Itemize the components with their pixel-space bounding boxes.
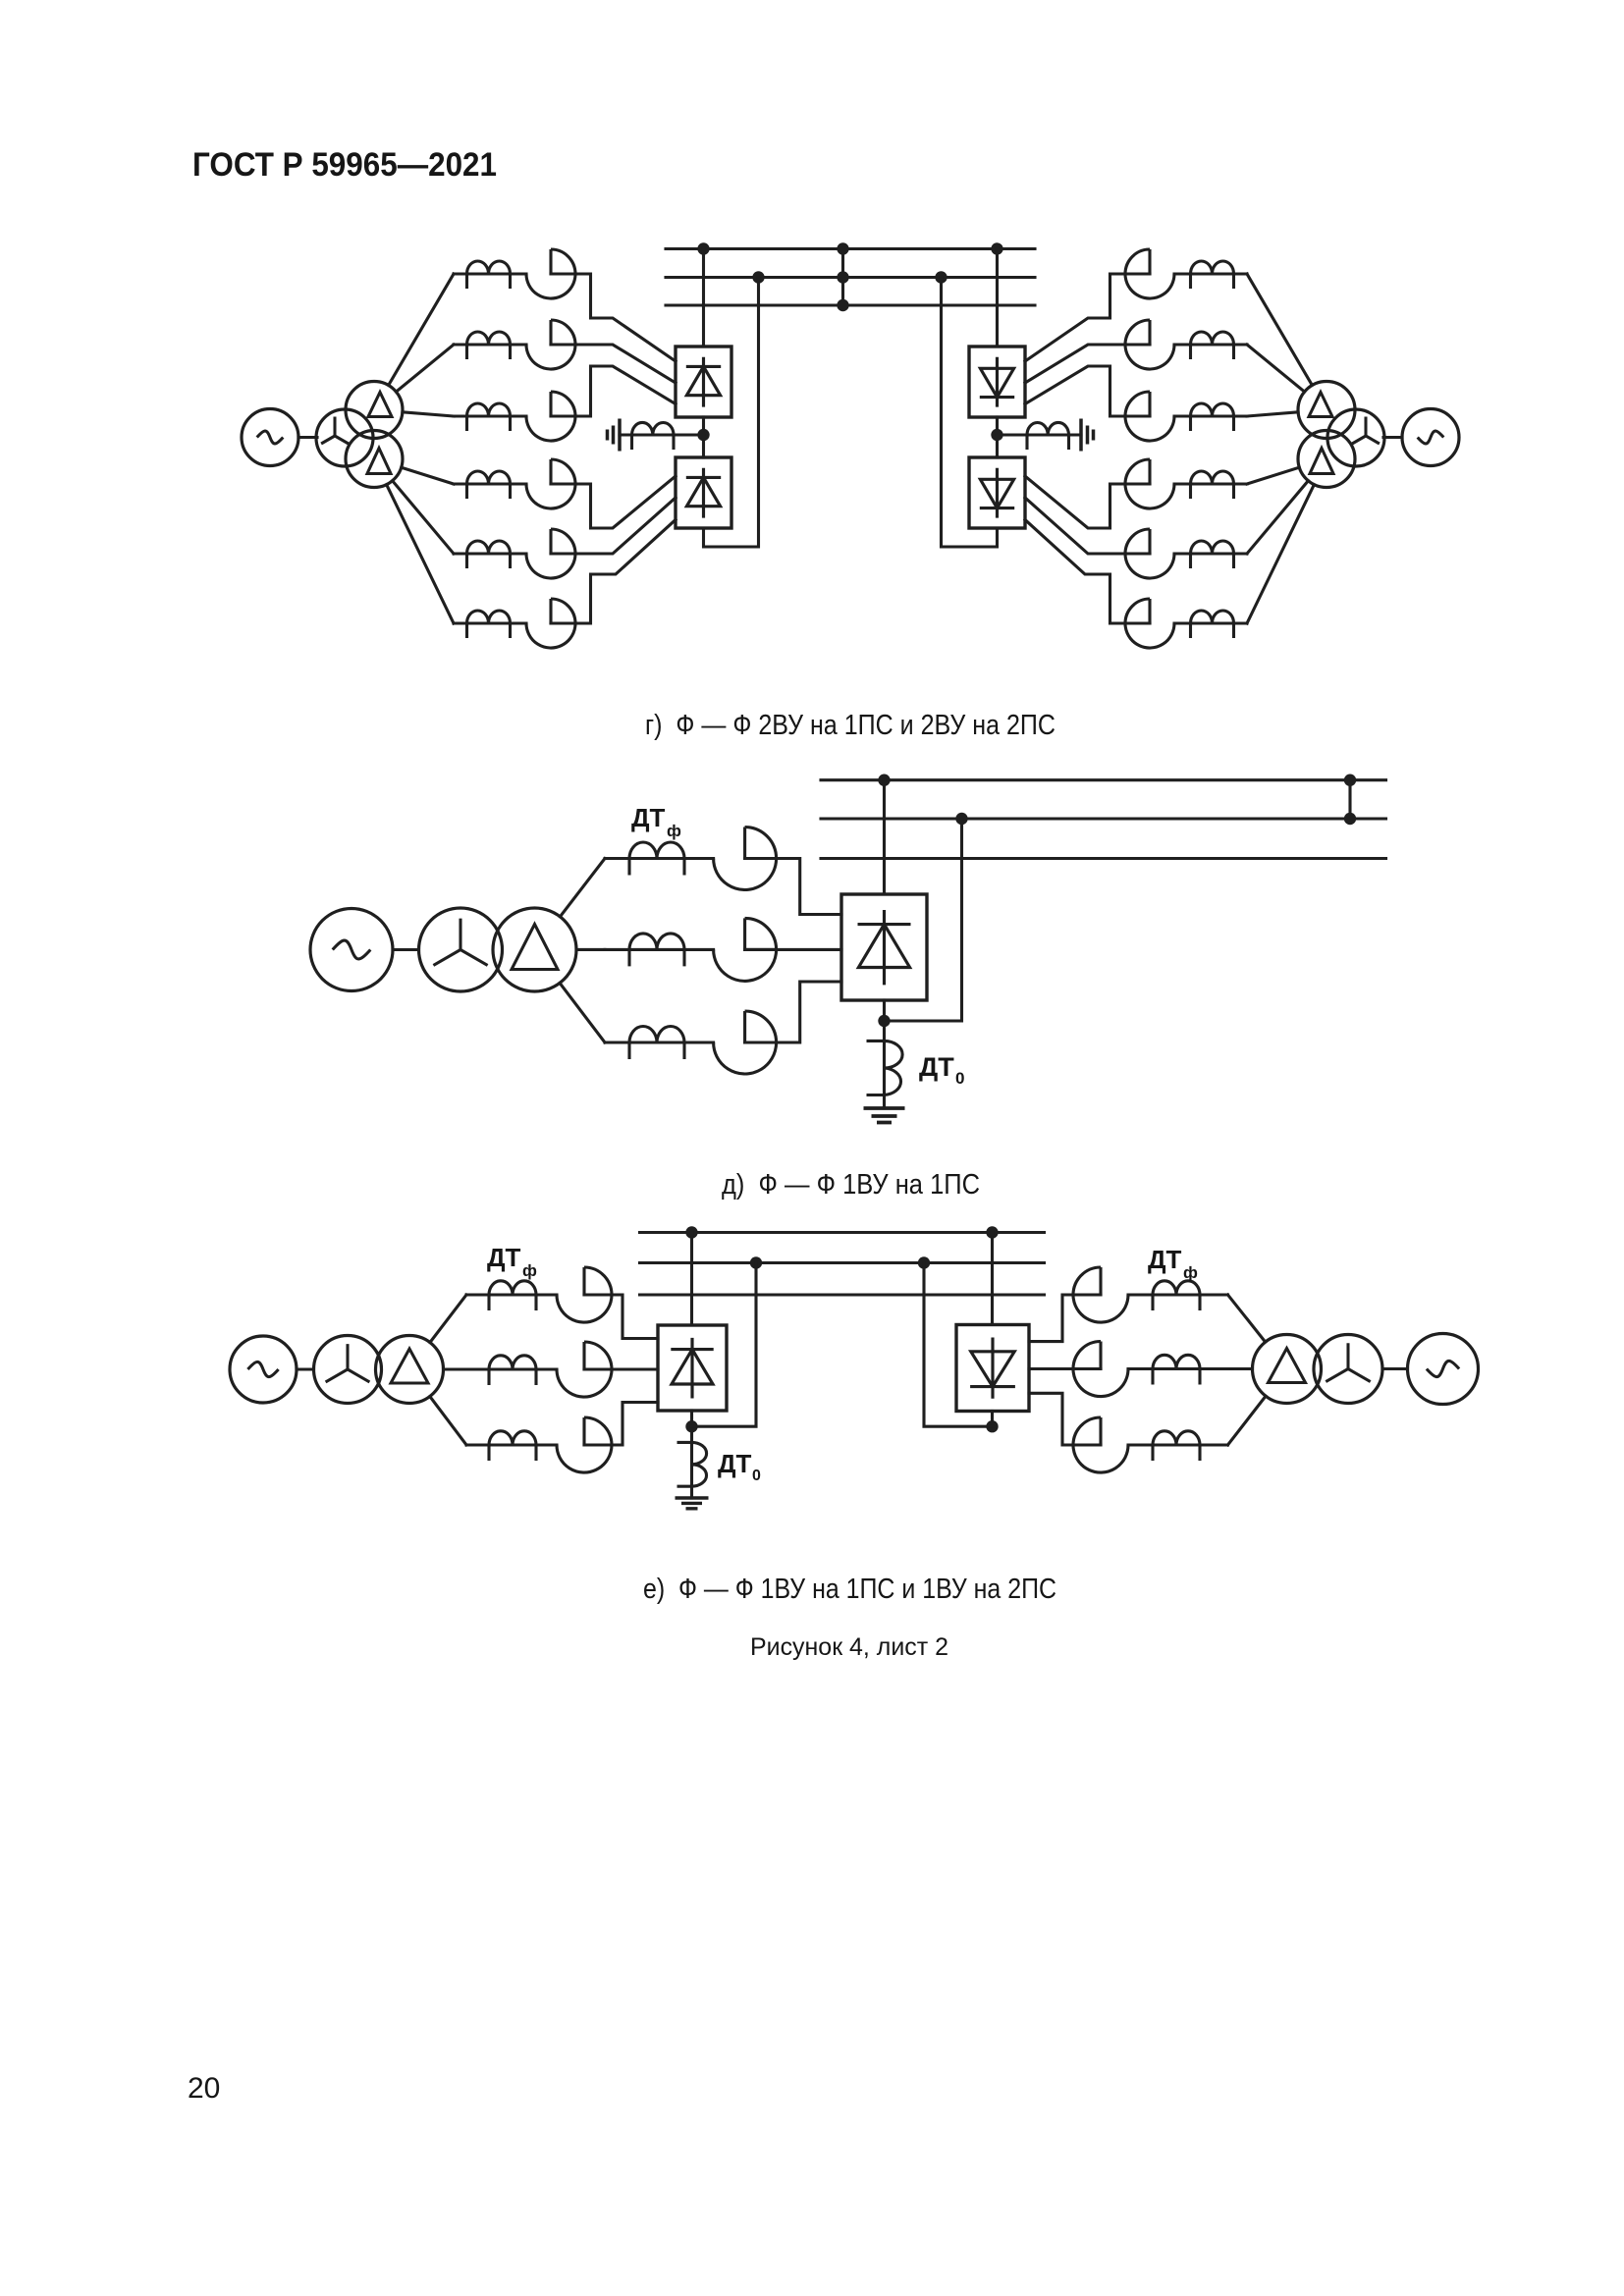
wire ДТ0 to ground (diagram д) (883, 1095, 886, 1109)
ground (diagram г left) (608, 419, 621, 452)
wire bus line 1 (diagram г) (666, 247, 1035, 250)
transformer T2 lower delta winding (diagram г right) (1298, 431, 1355, 488)
wire phase branch 3 run (diagram е right) (1128, 1443, 1228, 1446)
wire phase branch 6 run (diagram г right) (1174, 621, 1247, 624)
svg-text:Рисунок 4, лист 2: Рисунок 4, лист 2 (750, 1633, 948, 1661)
wire branch 1 to converter (diagram е left) (584, 1295, 658, 1339)
wire bus line 1 (diagram е) (640, 1231, 1045, 1234)
wire center bus tie (diagram г) (841, 249, 844, 306)
wire phase branch 1 run (diagram г left) (454, 272, 526, 275)
smoothing reactor branch 1 (diagram г left) (467, 261, 511, 289)
wire T2 winding to phase branch 6 (diagram г right) (1247, 485, 1314, 623)
wire T2 winding to phase branch 4 (diagram г right) (1247, 467, 1299, 484)
wire neutral to bus2 (diagram д) (885, 819, 962, 1021)
inverter unit 1ВУ (diagram е right) (956, 1325, 1029, 1412)
wire T1 winding to phase branch 1 (diagram г left) (389, 274, 454, 386)
smoothing reactor branch 4 (diagram г left) (467, 471, 511, 499)
inverter unit 1ВУ (diagram г right upper) (969, 347, 1025, 417)
svg-text:е) Ф — Ф 1ВУ на 1ПС и 1ВУ на: е) Ф — Ф 1ВУ на 1ПС и 1ВУ на 2ПС (643, 1574, 1056, 1605)
wire phase branch 5 run (diagram г right) (1174, 552, 1247, 555)
wire branch 5 to converter (diagram г left) (551, 498, 676, 554)
node converter neutral (diagram е left) (685, 1420, 697, 1432)
transformer T2 primary star winding (diagram г right) star (Y) symbol (1352, 417, 1380, 445)
svg-text:ф: ф (667, 822, 681, 840)
wire bus tie right end (diagram д) (1348, 780, 1351, 819)
transformer T delta winding (diagram д) (493, 908, 576, 991)
earthing reactor (diagram г right) (1027, 422, 1069, 450)
svg-text:0: 0 (752, 1468, 761, 1484)
wire T2 to phase branch 2 (diagram е right) (1228, 1367, 1253, 1370)
current transducer branch 5 (diagram г right) (1125, 529, 1174, 578)
converter unit 1ВУ (diagram г left upper) (676, 347, 731, 417)
wire branch 3 to inverter (diagram е right) (1029, 1393, 1101, 1445)
wire branch 3 to converter (diagram д) (745, 982, 841, 1042)
svg-text:ДТ: ДТ (631, 803, 666, 832)
wire T1 to phase branch 1 (diagram е left) (430, 1295, 466, 1343)
wire phase branch 3 run (diagram г left) (454, 414, 526, 417)
svg-text:ДТ: ДТ (919, 1052, 954, 1082)
wire between right inverters (diagram г) (996, 417, 999, 457)
transformer T1 star winding (diagram е left) star (Y) symbol (326, 1344, 370, 1382)
current transducer branch 3 (diagram г right) (1125, 392, 1174, 441)
current transducer ДТф branch 1 (diagram е left) (557, 1267, 612, 1322)
wire phase branch 1 run (diagram д) (605, 857, 714, 860)
transformer T delta winding (diagram д) delta symbol (512, 925, 558, 970)
wire neutral to bus2 (diagram е left) (692, 1263, 757, 1427)
AC system G (diagram д) (310, 909, 393, 991)
wire midpoint to earthing reactor (diagram г right) (998, 433, 1069, 436)
node bus1 left drop (diagram е) (685, 1226, 697, 1238)
wire neutral to bus2 (diagram е right) (924, 1263, 993, 1427)
wire phase branch 5 run (diagram г left) (454, 552, 526, 555)
neutral current transducer ДТ0 (diagram д) (867, 1041, 903, 1095)
wire phase branch 2 run (diagram г right) (1174, 343, 1247, 346)
phase current transducer reactor ДТф branch 1 (diagram е right) (1153, 1281, 1200, 1310)
wire G1 to T1 (diagram г left) (298, 436, 317, 439)
current transducer ДТф branch 2 (diagram е right) (1073, 1342, 1128, 1397)
wire branch 3 to converter (diagram г left) (551, 366, 676, 416)
phase current transducer reactor ДТф branch 2 (diagram д) (629, 934, 684, 967)
phase current transducer reactor ДТф branch 3 (diagram д) (629, 1027, 684, 1060)
current transducer branch 3 (diagram г left) (526, 392, 575, 441)
svg-text:ф: ф (522, 1261, 537, 1280)
node inverter neutral (diagram е right) (986, 1420, 998, 1432)
wire phase branch 1 run (diagram е right) (1128, 1293, 1228, 1296)
wire bus line 3 (diagram д) (821, 857, 1386, 860)
wire midpoint to earthing reactor (diagram г left) (632, 433, 704, 436)
transformer T2 upper delta winding (diagram г right) (1298, 382, 1355, 439)
wire G1 to T1 (diagram е left) (297, 1367, 314, 1370)
transformer T1 upper delta winding (diagram г left) (346, 382, 403, 439)
svg-text:0: 0 (955, 1069, 964, 1088)
current transducer branch 2 (diagram г left) (526, 320, 575, 369)
wire branch 4 to converter (diagram г left) (551, 476, 676, 528)
wire bus line 2 (diagram г) (666, 276, 1035, 279)
svg-text:ГОСТ Р 59965—2021: ГОСТ Р 59965—2021 (192, 146, 497, 184)
wire T1 winding to phase branch 3 (diagram г left) (403, 412, 454, 416)
inverter unit 2ВУ (diagram г right lower) valve symbol (980, 468, 1014, 518)
ground (diagram д) (864, 1108, 905, 1123)
phase current transducer reactor ДТф branch 3 (diagram е left) (489, 1431, 536, 1461)
wire phase branch 3 run (diagram г right) (1174, 414, 1247, 417)
node bus1 drop (diagram д) (878, 774, 890, 786)
wire T2 to phase branch 1 (diagram е right) (1228, 1295, 1266, 1342)
wire phase branch 2 run (diagram д) (605, 948, 714, 951)
inverter unit 2ВУ (diagram г right lower) (969, 457, 1025, 528)
wire phase branch 4 run (diagram г left) (454, 482, 526, 485)
wire phase branch 3 run (diagram д) (605, 1041, 714, 1043)
smoothing reactor branch 5 (diagram г left) (467, 541, 511, 568)
transformer T1 primary star winding (diagram г left) (316, 409, 373, 466)
smoothing reactor branch 2 (diagram г left) (467, 332, 511, 359)
transformer T2 star winding (diagram е right) star (Y) symbol (1326, 1343, 1370, 1381)
current transducer ДТф branch 1 (diagram д) (714, 828, 777, 890)
wire ДТ0 to ground (diagram е) (690, 1486, 693, 1498)
wire T1 to phase branch 3 (diagram е left) (430, 1397, 466, 1445)
current transducer branch 4 (diagram г left) (526, 459, 575, 508)
node bus2-right drop (diagram г) (935, 271, 947, 283)
smoothing reactor branch 3 (diagram г left) (467, 403, 511, 431)
wire bus1 to upper inverter (diagram г right) (996, 249, 999, 347)
AC system G2 (diagram е right) sine symbol (1427, 1361, 1459, 1376)
earthing reactor (diagram г left) (632, 422, 675, 450)
transformer T1 delta winding (diagram е left) delta symbol (391, 1349, 428, 1383)
wire bus line 3 (diagram г) (666, 303, 1035, 306)
phase current transducer reactor ДТф branch 2 (diagram е left) (489, 1356, 536, 1385)
wire bus1 to upper converter (diagram г left) (702, 249, 705, 347)
transformer T1 lower delta winding (diagram г left) (346, 431, 403, 488)
transformer T2 delta winding (diagram е right) delta symbol (1269, 1349, 1306, 1383)
wire bus line 2 (diagram д) (821, 817, 1386, 820)
converter unit 1ВУ (diagram д) (841, 894, 927, 1000)
wire phase branch 1 run (diagram е left) (466, 1293, 557, 1296)
transformer T2 primary star winding (diagram г right) (1327, 409, 1384, 466)
converter unit 1ВУ (diagram е left) (658, 1325, 727, 1411)
phase current transducer reactor ДТф branch 1 (diagram д) (629, 842, 684, 876)
current transducer ДТф branch 2 (diagram е left) (557, 1342, 612, 1397)
wire G2 to T2 (diagram е right) (1382, 1367, 1408, 1370)
smoothing reactor branch 4 (diagram г right) (1191, 471, 1234, 499)
current transducer branch 6 (diagram г left) (526, 599, 575, 648)
node bus2 right drop (diagram е) (918, 1256, 930, 1268)
wire branch 4 to converter (diagram г right) (1025, 476, 1150, 528)
node left converters midpoint (diagram г) (697, 429, 709, 441)
wire inverter to neutral node (diagram е right) (991, 1412, 994, 1427)
AC system G1 (diagram г left) (242, 409, 298, 466)
svg-text:ДТ: ДТ (718, 1449, 752, 1478)
node bus2 left drop (diagram е) (750, 1256, 762, 1268)
wire branch 2 to inverter (diagram е right) (1029, 1367, 1101, 1370)
neutral current transducer ДТ0 (diagram е) (677, 1442, 707, 1486)
transformer T1 primary star winding (diagram г left) star (Y) symbol (321, 417, 349, 445)
node bus1 right tie (diagram д) (1344, 774, 1356, 786)
transformer T1 upper delta winding (diagram г left) delta symbol (368, 393, 392, 417)
transformer T2 upper delta winding (diagram г right) delta symbol (1309, 393, 1332, 417)
svg-text:ф: ф (1183, 1263, 1198, 1282)
wire phase branch 2 run (diagram е left) (466, 1367, 557, 1370)
wire branch 2 to converter (diagram г left) (551, 345, 676, 383)
wire phase branch 1 run (diagram г right) (1174, 272, 1247, 275)
svg-text:д) Ф — Ф 1ВУ на 1ПС: д) Ф — Ф 1ВУ на 1ПС (722, 1169, 980, 1201)
wire T1 winding to phase branch 5 (diagram г left) (393, 481, 454, 554)
wire branch 6 to converter (diagram г left) (551, 520, 676, 624)
AC system G2 (diagram г right) (1402, 409, 1459, 466)
transformer T2 delta winding (diagram е right) (1253, 1335, 1322, 1404)
wire branch 2 to converter (diagram д) (745, 948, 841, 951)
transformer T star winding (diagram д) star (Y) symbol (433, 919, 487, 966)
inverter unit 1ВУ (diagram е right) valve symbol (970, 1338, 1015, 1399)
wire bus line 3 (diagram е) (640, 1293, 1045, 1296)
wire bus1 to converter (diagram е left) (690, 1233, 693, 1326)
transformer T1 delta winding (diagram е left) (376, 1336, 444, 1404)
wire T1 to phase branch 2 (diagram е left) (444, 1367, 467, 1370)
wire branch 5 to converter (diagram г right) (1025, 498, 1150, 554)
current transducer branch 4 (diagram г right) (1125, 459, 1174, 508)
wire T1 winding to phase branch 2 (diagram г left) (396, 345, 454, 392)
converter unit 1ВУ (diagram д) valve symbol (858, 910, 911, 985)
node bus1 right drop (diagram е) (986, 1226, 998, 1238)
wire G2 to T2 (diagram г right) (1383, 436, 1402, 439)
wire bus1 to converter (diagram д) (883, 780, 886, 894)
wire branch 6 to converter (diagram г right) (1025, 520, 1150, 624)
current transducer branch 2 (diagram г right) (1125, 320, 1174, 369)
wire branch 1 to converter (diagram д) (745, 859, 841, 915)
wire phase branch 6 run (diagram г left) (454, 621, 526, 624)
wire lower inverter to bus2 (diagram г right) (942, 278, 998, 548)
AC system G1 (diagram е left) (230, 1336, 297, 1403)
node converter neutral (diagram д) (878, 1015, 890, 1027)
ground (diagram е) (676, 1498, 709, 1509)
node bus1-right drop (diagram г) (991, 242, 1002, 254)
svg-text:г) Ф — Ф 2ВУ на 1ПС и 2ВУ на: г) Ф — Ф 2ВУ на 1ПС и 2ВУ на 2ПС (645, 710, 1056, 741)
wire T2 winding to phase branch 2 (diagram г right) (1247, 345, 1305, 392)
node right inverters midpoint (diagram г) (991, 429, 1002, 441)
node bus2-left drop (diagram г) (752, 271, 764, 283)
wire G to T (diagram д) (393, 948, 419, 951)
AC system G1 (diagram е left) sine symbol (247, 1362, 278, 1376)
node bus3-tie (diagram г) (837, 299, 848, 311)
converter unit 2ВУ (diagram г left lower) valve symbol (686, 468, 721, 518)
transformer T1 lower delta winding (diagram г left) delta symbol (367, 449, 391, 474)
converter unit 2ВУ (diagram г left lower) (676, 457, 731, 528)
wire phase branch 3 run (diagram е left) (466, 1443, 557, 1446)
wire lower converter to bus2 (diagram г left) (704, 278, 759, 548)
phase current transducer reactor ДТф branch 1 (diagram е left) (489, 1281, 536, 1310)
AC system G2 (diagram г right) sine symbol (1418, 431, 1444, 444)
current transducer ДТф branch 2 (diagram д) (714, 918, 777, 981)
wire T to phase branch 3 (diagram д) (560, 983, 605, 1042)
wire converter to neutral node (diagram е left) (690, 1411, 693, 1442)
wire branch 3 to converter (diagram е left) (584, 1403, 658, 1446)
wire branch 1 to converter (diagram г right) (1025, 274, 1150, 361)
transformer T2 lower delta winding (diagram г right) delta symbol (1310, 449, 1333, 474)
current transducer ДТф branch 3 (diagram е right) (1073, 1417, 1128, 1472)
wire T to phase branch 2 (diagram д) (576, 948, 605, 951)
current transducer ДТф branch 3 (diagram д) (714, 1011, 777, 1074)
current transducer branch 1 (diagram г right) (1125, 249, 1174, 298)
smoothing reactor branch 3 (diagram г right) (1191, 403, 1234, 431)
smoothing reactor branch 1 (diagram г right) (1191, 261, 1234, 289)
svg-text:ДТ: ДТ (487, 1243, 521, 1272)
wire T1 winding to phase branch 6 (diagram г left) (387, 485, 454, 623)
current transducer branch 1 (diagram г left) (526, 249, 575, 298)
wire T2 winding to phase branch 3 (diagram г right) (1247, 412, 1298, 416)
current transducer ДТф branch 1 (diagram е right) (1073, 1267, 1128, 1322)
AC system G1 (diagram г left) sine symbol (257, 431, 284, 444)
wire between left converters (diagram г) (702, 417, 705, 457)
smoothing reactor branch 2 (diagram г right) (1191, 332, 1234, 359)
transformer T1 star winding (diagram е left) (314, 1336, 382, 1404)
wire bus line 2 (diagram е) (640, 1261, 1045, 1264)
smoothing reactor branch 6 (diagram г left) (467, 611, 511, 638)
converter unit 1ВУ (diagram г left upper) valve symbol (686, 357, 721, 407)
wire T1 winding to phase branch 4 (diagram г left) (402, 467, 454, 484)
wire branch 1 to inverter (diagram е right) (1029, 1295, 1101, 1342)
node bus2 right tie (diagram д) (1344, 813, 1356, 825)
wire phase branch 2 run (diagram е right) (1128, 1367, 1228, 1370)
inverter unit 1ВУ (diagram г right upper) valve symbol (980, 357, 1014, 407)
wire earthing reactor to ground (diagram г right) (1069, 433, 1082, 436)
wire branch 2 to converter (diagram г right) (1025, 345, 1150, 383)
AC system G2 (diagram е right) (1408, 1334, 1479, 1405)
smoothing reactor branch 5 (diagram г right) (1191, 541, 1234, 568)
wire T2 winding to phase branch 1 (diagram г right) (1247, 274, 1312, 386)
node bus1-tie (diagram г) (837, 242, 848, 254)
phase current transducer reactor ДТф branch 2 (diagram е right) (1153, 1355, 1200, 1384)
node bus2 drop (diagram д) (955, 813, 967, 825)
wire phase branch 4 run (diagram г right) (1174, 482, 1247, 485)
node bus1-left drop (diagram г) (697, 242, 709, 254)
phase current transducer reactor ДТф branch 3 (diagram е right) (1153, 1431, 1200, 1461)
AC system G (diagram д) sine symbol (333, 940, 371, 959)
wire branch 2 to converter (diagram е left) (584, 1367, 658, 1370)
wire T2 to phase branch 3 (diagram е right) (1228, 1396, 1267, 1445)
wire bus1 to inverter (diagram е right) (991, 1233, 994, 1325)
current transducer branch 5 (diagram г left) (526, 529, 575, 578)
transformer T star winding (diagram д) (419, 908, 503, 991)
wire phase branch 2 run (diagram г left) (454, 343, 526, 346)
svg-text:ДТ: ДТ (1148, 1245, 1182, 1274)
svg-text:20: 20 (188, 2072, 220, 2105)
converter unit 1ВУ (diagram е left) valve symbol (671, 1338, 713, 1399)
wire bus line 1 (diagram д) (821, 778, 1386, 781)
wire branch 3 to converter (diagram г right) (1025, 366, 1150, 416)
wire T to phase branch 1 (diagram д) (560, 859, 605, 917)
wire earthing reactor to ground (diagram г left) (620, 433, 632, 436)
current transducer branch 6 (diagram г right) (1125, 599, 1174, 648)
wire T2 winding to phase branch 5 (diagram г right) (1247, 481, 1308, 554)
transformer T2 star winding (diagram е right) (1314, 1335, 1382, 1404)
ground (diagram г right) (1081, 419, 1094, 452)
current transducer ДТф branch 3 (diagram е left) (557, 1417, 612, 1472)
wire branch 1 to converter (diagram г left) (551, 274, 676, 361)
wire converter to neutral node (diagram д) (883, 1000, 886, 1041)
smoothing reactor branch 6 (diagram г right) (1191, 611, 1234, 638)
node bus2-tie (diagram г) (837, 271, 848, 283)
